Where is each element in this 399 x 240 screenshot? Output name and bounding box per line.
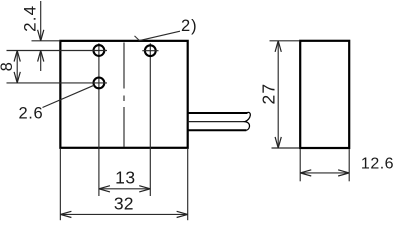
- hole H3 lower-left circle: [94, 78, 105, 89]
- svg-text:32: 32: [114, 194, 134, 214]
- dimension text 27: [258, 83, 278, 105]
- hole column line left: [98, 43, 100, 196]
- dimension 2.4 lower arrow line: [38, 51, 44, 72]
- leader 2): [135, 31, 181, 40]
- leader text 2.6: [19, 104, 44, 122]
- extension line 27 top: [270, 40, 300, 42]
- svg-text:2.4: 2.4: [20, 5, 39, 32]
- hole H2 top-right circle: [142, 45, 158, 56]
- hole column line right: [149, 43, 151, 196]
- dimension text 2.4: [20, 5, 39, 32]
- dimension text 8: [0, 62, 16, 71]
- extension line hole H1 center: [7, 50, 108, 52]
- dimension 13 line with arrows: [99, 186, 150, 192]
- svg-text:12.6: 12.6: [361, 156, 394, 173]
- centerline (dash-dot): [123, 43, 125, 148]
- svg-text:13: 13: [115, 168, 135, 188]
- extension line 27 bottom: [272, 147, 300, 149]
- svg-text:2): 2): [181, 17, 198, 35]
- dimension 27 line with arrows: [275, 41, 281, 148]
- side view extension left (for 12.6): [299, 149, 301, 181]
- hole H1 top-left circle: [94, 45, 105, 56]
- side view extension right (for 12.6): [348, 149, 350, 181]
- extension line hole H3 center: [7, 82, 108, 84]
- dimension 12.6 line with arrows: [300, 170, 349, 176]
- dimension text 13: [115, 168, 135, 188]
- cable bottom line: [188, 129, 247, 131]
- svg-text:2.6: 2.6: [19, 104, 44, 122]
- dimension 8 line with arrows: [14, 51, 20, 83]
- dimension text 12.6: [361, 156, 394, 173]
- front view body outline: [60, 41, 187, 148]
- cable middle line: [188, 121, 245, 123]
- body edge extension right (for 32): [187, 149, 189, 220]
- body edge extension left (for 32): [59, 149, 61, 220]
- svg-text:8: 8: [0, 62, 16, 71]
- leader 2.6: [43, 85, 94, 107]
- svg-text:27: 27: [258, 83, 278, 105]
- dimension 2.4 upper arrow line: [38, 1, 44, 41]
- cable top line: [188, 112, 248, 114]
- extension line top edge left: [32, 40, 61, 42]
- cable end break curve: [245, 112, 250, 130]
- leader text 2): [181, 17, 198, 35]
- dimension 32 line with arrows: [60, 211, 187, 217]
- side view body outline: [300, 41, 349, 148]
- dimension text 32: [114, 194, 134, 214]
